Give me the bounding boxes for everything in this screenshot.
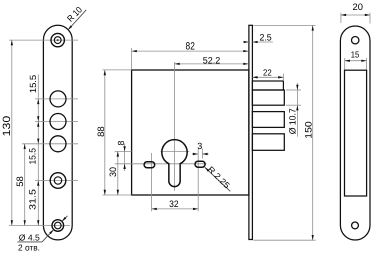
right slot centerline vertical <box>197 149 199 212</box>
svg-text:32: 32 <box>169 199 179 209</box>
dim 58 <box>24 144 26 226</box>
dim 30 <box>117 151 119 195</box>
left faceplate plate outline <box>43 25 72 240</box>
dim 31.5 <box>37 181 39 226</box>
euro cylinder profile <box>162 140 187 187</box>
hole2 <box>50 114 66 130</box>
svg-text:15: 15 <box>351 49 360 59</box>
bottom screw hole outer <box>52 220 64 232</box>
strike plate outline <box>340 26 370 240</box>
latch bolt <box>252 81 283 90</box>
svg-text:2.5: 2.5 <box>259 32 271 42</box>
hole4 inner <box>54 177 61 184</box>
centerline bottom hole <box>9 225 70 227</box>
left slot centerline vertical <box>151 153 153 211</box>
ext line 20 right <box>369 13 371 24</box>
left slot <box>144 162 155 168</box>
bolt 2 <box>252 112 284 128</box>
svg-text:8: 8 <box>116 140 126 145</box>
lock faceplate strip <box>249 25 253 239</box>
ext line 20 left <box>340 13 342 23</box>
top screw hole inner <box>54 37 61 44</box>
svg-text:88: 88 <box>96 126 106 137</box>
ext line 82 left <box>131 48 133 70</box>
strike bottom hole <box>352 222 359 229</box>
svg-text:130: 130 <box>1 116 13 137</box>
svg-text:30: 30 <box>108 167 118 177</box>
bolt 1 <box>252 90 284 105</box>
hole3 <box>50 136 66 152</box>
centerline hole4 <box>35 180 78 182</box>
svg-text:15.5: 15.5 <box>28 75 38 93</box>
dim 15.5 upper <box>37 75 39 181</box>
bolt 3 <box>252 134 284 151</box>
ext line 150 bottom <box>253 239 315 241</box>
dim 20 <box>341 14 370 16</box>
leader R 10 <box>68 10 86 30</box>
slots centerline horizontal <box>115 163 207 165</box>
dim 2.5 <box>243 41 249 43</box>
ext line dim 8 <box>115 151 132 153</box>
hole4 outer <box>50 173 66 189</box>
svg-text:2 отв.: 2 отв. <box>18 243 40 253</box>
svg-text:Ø 4.5: Ø 4.5 <box>19 232 40 242</box>
svg-text:3: 3 <box>197 141 202 151</box>
ext line 88 top <box>102 69 131 71</box>
right slot <box>195 161 205 167</box>
strike plate cutout <box>345 70 367 196</box>
ext line dim 3 right <box>201 149 203 159</box>
svg-text:22: 22 <box>263 68 272 78</box>
ext line 88 bottom <box>102 194 131 196</box>
ext line 22 right <box>282 74 284 81</box>
dim 88 <box>104 70 106 195</box>
svg-text:52.2: 52.2 <box>203 56 221 66</box>
dim dia 10.7 <box>296 83 298 137</box>
svg-text:20: 20 <box>353 2 363 12</box>
svg-text:Ø 10.7: Ø 10.7 <box>287 108 297 134</box>
dim 82 <box>132 50 249 52</box>
strike top hole <box>352 37 359 44</box>
dim 3 <box>192 153 198 155</box>
dim 22 <box>252 76 283 78</box>
centerline top hole <box>9 39 78 41</box>
ext line 10.7 top <box>286 89 301 91</box>
svg-text:15.5: 15.5 <box>28 148 38 165</box>
ext line 150 top <box>253 24 315 26</box>
dim 32 <box>152 208 199 210</box>
cylinder centerline vertical <box>174 62 176 191</box>
dim 150 <box>312 25 314 240</box>
top screw hole center mark <box>57 39 59 41</box>
dim 52.2 <box>175 63 249 65</box>
svg-text:82: 82 <box>186 41 195 53</box>
ext line 10.7 bottom <box>286 104 301 106</box>
top screw hole outer <box>51 33 64 46</box>
svg-text:150: 150 <box>303 121 313 138</box>
centerline hole3 <box>22 143 78 145</box>
dim 8 <box>124 144 126 172</box>
ext line 15 right <box>366 58 368 70</box>
leader R 2.25 <box>205 167 231 191</box>
cylinder circle centerline <box>161 151 190 153</box>
svg-text:58: 58 <box>15 176 25 187</box>
bottom screw hole inner <box>55 222 62 229</box>
centerline hole2 <box>35 121 78 123</box>
lock body outline <box>132 70 249 195</box>
hole1 <box>50 91 66 107</box>
dim 130 <box>11 40 13 225</box>
centerline hole1 <box>35 98 78 100</box>
ext line 15 left <box>344 58 346 70</box>
svg-text:31.5: 31.5 <box>27 189 37 210</box>
dim 15 <box>345 60 367 62</box>
